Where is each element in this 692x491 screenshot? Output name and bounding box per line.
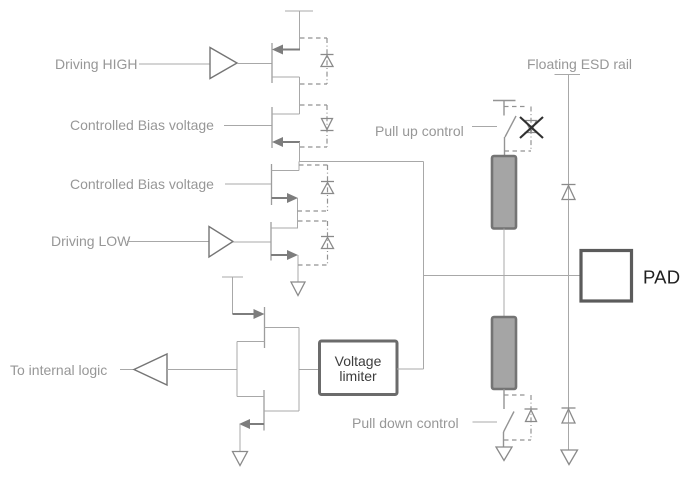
svg-text:Floating ESD rail: Floating ESD rail — [527, 56, 632, 72]
svg-text:PAD: PAD — [643, 267, 680, 288]
supply rail inverter — [222, 277, 243, 314]
label Driving HIGH — [55, 56, 137, 72]
diode D6 pull down dashed — [504, 395, 538, 440]
buffer U3 to internal logic pointing left — [134, 354, 167, 385]
svg-text:Driving LOW: Driving LOW — [51, 233, 131, 249]
wire bias2 to M3 gate — [225, 183, 272, 185]
wire M4 source to ground — [297, 255, 299, 282]
resistor R1 pull up — [492, 156, 516, 229]
svg-text:To internal logic: To internal logic — [10, 362, 107, 378]
label Pull down control — [352, 415, 459, 431]
buffer U1 Driving HIGH — [210, 48, 237, 79]
svg-text:limiter: limiter — [339, 368, 377, 384]
diode D8 ESD lower — [562, 408, 576, 423]
wire ESD rail lower — [568, 423, 570, 450]
wire pad node to R2 — [503, 276, 505, 318]
label To internal logic — [10, 362, 107, 378]
label Floating ESD rail — [527, 56, 632, 72]
svg-text:Controlled Bias voltage: Controlled Bias voltage — [70, 176, 214, 192]
wire receiver output vertical — [298, 328, 300, 412]
pad box — [581, 251, 632, 302]
diode D1 body diode of M1 dashed — [300, 38, 334, 84]
wire ESD rail middle — [568, 200, 570, 424]
label Pull up control — [375, 123, 464, 139]
switch SW2 pull down blade — [504, 412, 515, 448]
wire buffer U3 input — [167, 369, 237, 371]
floating ESD rail bar — [555, 74, 581, 76]
wire Driving LOW to buffer — [127, 241, 209, 243]
wire M2 source to output node — [299, 142, 301, 162]
svg-text:Pull down control: Pull down control — [352, 415, 459, 431]
wire R1 to pad node — [503, 229, 505, 276]
wire bus vertical — [423, 162, 425, 370]
wire Driving HIGH to buffer — [139, 63, 210, 65]
supply rail top — [285, 11, 313, 50]
wire pull up control lead — [472, 126, 497, 128]
diode D4 body diode of M4 dashed — [298, 221, 334, 265]
voltage limiter U4 box — [320, 341, 398, 395]
buffer U2 Driving LOW — [209, 227, 233, 258]
transistor M6 NMOS receiver — [237, 390, 299, 431]
wire pull down control lead — [473, 421, 498, 423]
wire M3 source to M4 drain — [297, 198, 299, 228]
ground under SW2 — [496, 447, 512, 461]
wire gate trunk — [236, 342, 238, 397]
svg-text:Voltage: Voltage — [335, 353, 382, 369]
pull up supply bar — [493, 101, 516, 116]
wire buffer U2 to M4 gate — [233, 241, 271, 243]
resistor R2 pull down — [492, 317, 516, 389]
label Controlled Bias voltage upper — [70, 117, 214, 133]
wire M1 drain to M2 drain — [299, 77, 301, 114]
transistor M3 NMOS cascode — [272, 162, 300, 206]
wire bias1 to M2 gate — [224, 125, 272, 127]
diode D5 pull up dashed — [504, 107, 538, 152]
wire receiver output to voltage limiter — [299, 369, 320, 371]
diode D3 body diode of M3 dashed — [298, 165, 335, 211]
wire ESD rail upper — [568, 75, 570, 200]
wire pad node horizontal — [424, 275, 582, 277]
svg-text:Controlled Bias voltage: Controlled Bias voltage — [70, 117, 214, 133]
wire R2 to switch SW2 — [503, 389, 505, 409]
svg-text:Pull up control: Pull up control — [375, 123, 464, 139]
ground under ESD rail — [561, 450, 578, 465]
wire M6 source to ground — [239, 424, 241, 452]
transistor M2 PMOS cascode — [272, 107, 300, 148]
ground under M6 — [233, 452, 248, 466]
label Controlled Bias voltage lower — [70, 176, 214, 192]
transistor M1 PMOS driving high — [272, 43, 300, 83]
wire buffer U1 to M1 gate — [237, 63, 272, 65]
wire text to buffer U3 apex — [120, 369, 134, 371]
wire voltage limiter to bus — [397, 368, 424, 370]
label Driving LOW — [51, 233, 131, 249]
wire output node horizontal — [300, 161, 424, 163]
transistor M4 NMOS driving low — [271, 222, 298, 261]
svg-text:Driving HIGH: Driving HIGH — [55, 56, 137, 72]
diode D2 body diode of M2 dashed — [300, 105, 334, 147]
label PAD — [643, 267, 680, 288]
X mark disabled diode — [520, 117, 543, 138]
diode D7 ESD upper — [562, 185, 576, 200]
switch SW1 pull up blade — [505, 116, 517, 156]
transistor M5 PMOS receiver — [233, 307, 300, 348]
ground under M4 — [291, 282, 305, 296]
